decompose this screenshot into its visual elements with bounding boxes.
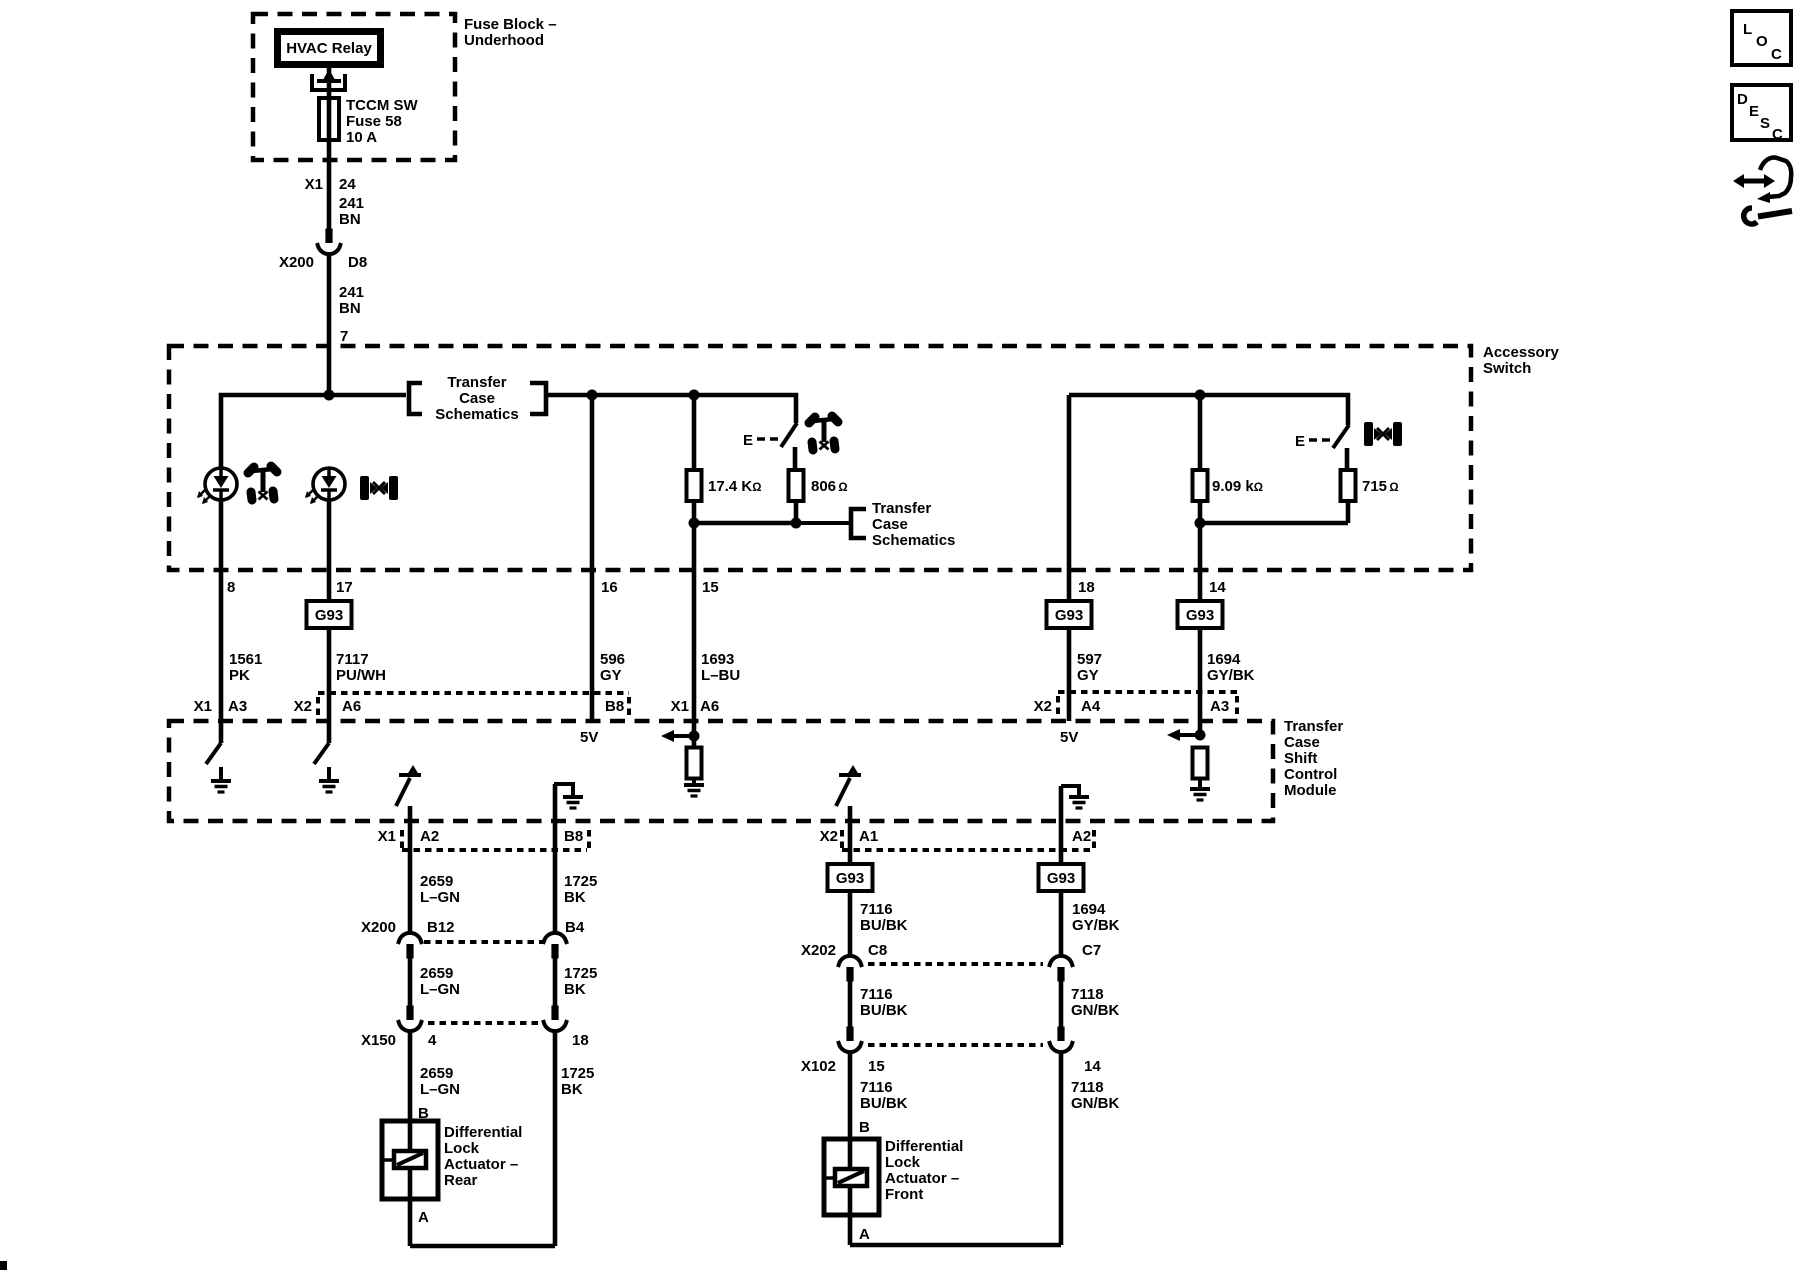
svg-text:1725: 1725: [564, 965, 597, 982]
wire: module pin B8 down to actuator return: [553, 784, 558, 931]
svg-text:241: 241: [339, 195, 364, 212]
ground (module pin A3): [211, 781, 231, 792]
wire: 18 from bus to splice G93: [1067, 395, 1072, 601]
svg-text:7118: 7118: [1071, 986, 1104, 1003]
pin label B: [859, 1119, 870, 1136]
svg-text:15: 15: [702, 579, 719, 596]
svg-text:Control: Control: [1284, 766, 1337, 783]
wire label 7116 BU/BK: [860, 1079, 908, 1112]
svg-text:597: 597: [1077, 651, 1102, 668]
svg-text:5V: 5V: [1060, 729, 1078, 746]
module pull resistor (left): [687, 748, 702, 779]
svg-text:7116: 7116: [860, 1079, 893, 1096]
svg-text:Fuse Block –: Fuse Block –: [464, 16, 557, 33]
svg-text:A: A: [418, 1209, 429, 1226]
wire: G93 to X202 C8: [848, 891, 853, 954]
fuse F58 (TCCM SW Fuse 58 10 A): [319, 98, 339, 140]
wire: B12 to X150: [408, 958, 413, 1006]
svg-text:5V: 5V: [580, 729, 598, 746]
svg-text:A6: A6: [700, 698, 719, 715]
svg-text:Transfer: Transfer: [447, 374, 506, 391]
svg-text:Schematics: Schematics: [435, 406, 518, 423]
icon: axle lock: [360, 476, 398, 500]
wire label 2659 L-GN: [420, 1065, 460, 1098]
svg-text:X200: X200: [361, 919, 396, 936]
LED1 indicator (4x4 lamp): [197, 468, 237, 504]
svg-text:BN: BN: [339, 211, 361, 228]
wire to bracket 2: [796, 521, 849, 525]
wire: 14 down through splice G93 to module: [1198, 523, 1203, 735]
svg-text:BU/BK: BU/BK: [860, 1095, 908, 1112]
svg-text:GY/BK: GY/BK: [1072, 917, 1120, 934]
svg-text:C: C: [1771, 46, 1782, 63]
svg-text:Transfer: Transfer: [1284, 718, 1343, 735]
wire label 7116 BU/BK: [860, 986, 908, 1019]
svg-text:Case: Case: [459, 390, 495, 407]
page corner mark: [0, 1261, 7, 1270]
svg-text:L–GN: L–GN: [420, 889, 460, 906]
wire resistor to ground: [692, 779, 696, 785]
wire label 7118 GN/BK: [1071, 986, 1120, 1019]
svg-text:15: 15: [868, 1058, 885, 1075]
wire: LED2 through splice G93 to module pin A6: [327, 500, 332, 743]
switch to ground inside module (pin A3): [206, 743, 221, 780]
sense arrow on pin A6 input: [661, 730, 700, 742]
svg-text:X1: X1: [194, 698, 212, 715]
wire: driver to connector X2 A1: [848, 806, 853, 864]
wire label 1694 GY/BK: [1207, 651, 1255, 684]
wire label 7118 GN/BK: [1071, 1079, 1120, 1112]
svg-text:B8: B8: [605, 698, 624, 715]
resistor 9.09 k: [1193, 470, 1208, 501]
pin label A3: [1210, 698, 1229, 715]
junction node at fuse stem and bus: [324, 390, 335, 401]
wire: switch lower stub: [793, 447, 798, 471]
splice G93 below A1: [828, 864, 873, 891]
svg-text:A3: A3: [228, 698, 247, 715]
junction node at 1200,523: [1195, 518, 1206, 529]
label: Transfer Case Shift Control Module: [1284, 718, 1343, 799]
wire: B4 to X150: [553, 958, 558, 1006]
wire: 18 from splice to module 5V: [1067, 628, 1072, 721]
connector boundary dotted (right group A4..A3): [1058, 692, 1237, 719]
svg-text:2659: 2659: [420, 965, 453, 982]
svg-text:L–BU: L–BU: [701, 667, 740, 684]
bracket right ]: [530, 383, 546, 414]
wire label 241 BN: [339, 195, 364, 228]
svg-text:Switch: Switch: [1483, 360, 1531, 377]
pin label 7: [340, 328, 348, 345]
wire label 2659 L-GN: [420, 873, 460, 906]
svg-text:18: 18: [1078, 579, 1095, 596]
label 5V (pin A4): [1060, 729, 1078, 746]
wire: fuse output 241 BN down to accessory switch bus: [327, 256, 332, 397]
pin label A: [859, 1226, 870, 1243]
svg-text:S: S: [1760, 115, 1770, 132]
pin label 15: [702, 579, 719, 596]
label: Transfer Case Schematics (center): [435, 374, 518, 423]
pin label 14: [1209, 579, 1226, 596]
label 17.4 K ohm: [708, 478, 761, 495]
svg-text:E: E: [1295, 433, 1305, 450]
pin label X1 A6: [671, 698, 720, 715]
junction node at 694,523: [689, 518, 700, 529]
corner icon: DESC box: [1732, 85, 1791, 143]
wire label 7117 PU/WH: [336, 651, 386, 684]
svg-text:B8: B8: [564, 828, 583, 845]
svg-text:A1: A1: [859, 828, 878, 845]
fuse block underhood dashed box: [253, 14, 455, 160]
svg-text:C8: C8: [868, 942, 887, 959]
harness dotted X200: [424, 940, 543, 944]
label: TCCM SW Fuse 58 10 A: [346, 97, 418, 146]
wire: 715 resistor to junction row: [1200, 501, 1348, 524]
svg-text:O: O: [1756, 33, 1768, 50]
label: Transfer Case Schematics (right): [872, 500, 955, 549]
wire: 15 from bus through resistor to junction: [692, 395, 697, 523]
sense arrow on pin A3 input: [1167, 729, 1206, 741]
wire: bus right segment from bracket to mode switch: [548, 395, 796, 423]
svg-text:Actuator –: Actuator –: [885, 1170, 959, 1187]
switch to ground inside module (pin A6): [314, 743, 329, 780]
connector boundary dotted (bottom right X2 A1..A2): [842, 830, 1094, 850]
svg-text:L: L: [1743, 21, 1752, 38]
svg-text:PK: PK: [229, 667, 250, 684]
wire: 806 resistor to junction row: [694, 501, 796, 524]
svg-text:Lock: Lock: [885, 1154, 921, 1171]
svg-text:A2: A2: [420, 828, 439, 845]
ground below resistor (left): [684, 785, 704, 796]
svg-text:B12: B12: [427, 919, 455, 936]
svg-text:X2: X2: [820, 828, 838, 845]
solenoid (front actuator coil): [826, 1169, 867, 1186]
svg-text:Shift: Shift: [1284, 750, 1317, 767]
connector X150 pin 4: [398, 1006, 422, 1032]
svg-text:16: 16: [601, 579, 618, 596]
wire: right bus: [1069, 395, 1348, 425]
svg-text:B4: B4: [565, 919, 585, 936]
wire: LED1 to module pin A3: [219, 500, 224, 743]
harness dotted X150: [428, 1021, 543, 1025]
wire: connector to actuator and return loop: [850, 1054, 1061, 1245]
label 9.09 k ohm: [1212, 478, 1263, 495]
wire: module pin A2 down to splice G93: [1059, 786, 1064, 864]
svg-text:241: 241: [339, 284, 364, 301]
svg-text:17: 17: [336, 579, 353, 596]
svg-text:10 A: 10 A: [346, 129, 377, 146]
label: Accessory Switch: [1483, 344, 1560, 377]
svg-text:1693: 1693: [701, 651, 734, 668]
svg-text:GY: GY: [1077, 667, 1099, 684]
svg-text:X102: X102: [801, 1058, 836, 1075]
svg-text:GN/BK: GN/BK: [1071, 1095, 1120, 1112]
actuator box: Differential Lock Actuator Rear: [382, 1121, 438, 1199]
svg-text:2659: 2659: [420, 873, 453, 890]
pin label A: [418, 1209, 429, 1226]
svg-text:Front: Front: [885, 1186, 923, 1203]
pin label X1 24: [305, 176, 357, 193]
svg-text:L–GN: L–GN: [420, 1081, 460, 1098]
connector X102 pin 14: [1049, 1027, 1073, 1053]
svg-text:1561: 1561: [229, 651, 262, 668]
junction node at 1200,395: [1195, 390, 1206, 401]
connector X200 pin D8 (inline connector): [317, 229, 341, 255]
label: Differential Lock Actuator - Rear: [444, 1124, 522, 1189]
svg-text:Lock: Lock: [444, 1140, 480, 1157]
connector X200 pin B12: [398, 933, 422, 959]
svg-text:Case: Case: [1284, 734, 1320, 751]
connector boundary dotted (left group A6..B8): [318, 693, 629, 719]
svg-text:14: 14: [1084, 1058, 1101, 1075]
label 5V (pin B8): [580, 729, 598, 746]
svg-text:TCCM SW: TCCM SW: [346, 97, 418, 114]
svg-text:L–GN: L–GN: [420, 981, 460, 998]
connector boundary dotted (bottom left X1 A2..B8): [402, 830, 589, 850]
svg-text:B: B: [859, 1119, 870, 1136]
junction node at 796,523: [791, 518, 802, 529]
accessory switch dashed box: [169, 346, 1471, 570]
label X202 C8 C7: [801, 942, 1101, 959]
wire: driver to connector X1 A2: [408, 806, 413, 931]
ground below resistor (right): [1190, 789, 1210, 800]
svg-text:Transfer: Transfer: [872, 500, 931, 517]
label X200 D8: [279, 254, 367, 271]
resistor 806: [789, 470, 804, 501]
svg-text:7116: 7116: [860, 901, 893, 918]
wire label 7116 BU/BK: [860, 901, 908, 934]
svg-text:A4: A4: [1081, 698, 1101, 715]
connector X202 pin C8: [838, 956, 862, 982]
svg-text:24: 24: [339, 176, 356, 193]
svg-text:X2: X2: [294, 698, 312, 715]
actuator box: Differential Lock Actuator Front: [824, 1139, 879, 1215]
pin label 18: [1078, 579, 1095, 596]
pin label A2 (bottom): [1072, 828, 1091, 845]
pin label 8: [227, 579, 235, 596]
junction node wire 15: [689, 390, 700, 401]
svg-text:Actuator –: Actuator –: [444, 1156, 518, 1173]
wire label 1561 PK: [229, 651, 262, 684]
pin label X2 A1: [820, 828, 879, 845]
wire label 1725 BK: [561, 1065, 594, 1098]
wire label 241 BN: [339, 284, 364, 317]
svg-text:BK: BK: [564, 981, 586, 998]
wire label 1694 GY/BK: [1072, 901, 1120, 934]
label 715 ohm: [1362, 478, 1399, 495]
label X102 15 14: [801, 1058, 1101, 1075]
svg-text:A: A: [859, 1226, 870, 1243]
connector X202 pin C7: [1049, 956, 1073, 982]
corner icon: arrows and wrench: [1733, 158, 1792, 224]
svg-text:A3: A3: [1210, 698, 1229, 715]
pin label X1 A2: [378, 828, 440, 845]
junction node wire 16: [587, 390, 598, 401]
wire label 1725 BK: [564, 965, 597, 998]
pin label 16: [601, 579, 618, 596]
svg-text:Fuse 58: Fuse 58: [346, 113, 402, 130]
bracket 2 [: [851, 509, 866, 538]
svg-text:E: E: [1749, 103, 1759, 120]
transfer case shift control module dashed box: [169, 721, 1273, 821]
svg-text:X202: X202: [801, 942, 836, 959]
wire: C7 to X102: [1059, 981, 1064, 1027]
svg-text:X150: X150: [361, 1032, 396, 1049]
svg-text:BK: BK: [564, 889, 586, 906]
svg-text:BN: BN: [339, 300, 361, 317]
label: Differential Lock Actuator - Front: [885, 1138, 963, 1203]
relay HVAC (box): [278, 32, 381, 65]
pin label X1 A3: [194, 698, 248, 715]
svg-text:X200: X200: [279, 254, 314, 271]
svg-text:Rear: Rear: [444, 1172, 478, 1189]
wire: battery feed from HVAC relay through fuse down to connector X1: [327, 68, 332, 229]
svg-text:Differential: Differential: [444, 1124, 522, 1141]
corner icon: LOC box: [1732, 11, 1791, 65]
svg-text:7: 7: [340, 328, 348, 345]
label 806 ohm: [811, 478, 848, 495]
svg-text:D8: D8: [348, 254, 367, 271]
wire label 1693 L-BU: [701, 651, 740, 684]
svg-text:Differential: Differential: [885, 1138, 963, 1155]
svg-text:1725: 1725: [561, 1065, 594, 1082]
wire: 15 down to module: [692, 523, 697, 749]
switch SW2 blade (E-- front lock): [1295, 425, 1349, 450]
resistor 715: [1341, 470, 1356, 501]
svg-text:596: 596: [600, 651, 625, 668]
label X150 4 18: [361, 1032, 589, 1049]
bracket left [: [409, 383, 422, 414]
label: Fuse Block - Underhood: [464, 16, 557, 49]
svg-text:1694: 1694: [1072, 901, 1106, 918]
svg-text:HVAC Relay: HVAC Relay: [286, 40, 372, 57]
wire: C8 to X102: [848, 981, 853, 1027]
wire: connector to actuator and return loop: [410, 1033, 555, 1246]
svg-text:C: C: [1772, 126, 1783, 143]
resistor 17.4 K: [687, 470, 702, 501]
svg-text:Module: Module: [1284, 782, 1337, 799]
svg-text:Case: Case: [872, 516, 908, 533]
relay socket terminal symbol: [310, 69, 347, 90]
module driver switch (pin A1): [836, 765, 861, 806]
svg-text:C7: C7: [1082, 942, 1101, 959]
icon: 4x4 driveline at switch: [809, 416, 838, 450]
svg-text:7116: 7116: [860, 986, 893, 1003]
svg-text:18: 18: [572, 1032, 589, 1049]
wire: bus left segment to bracket: [221, 395, 406, 468]
splice G93 on wire 17: [307, 601, 352, 628]
module pull resistor (right): [1193, 748, 1208, 779]
svg-text:D: D: [1737, 91, 1748, 108]
wire: G93 to X202 C7: [1059, 891, 1064, 954]
svg-text:14: 14: [1209, 579, 1226, 596]
solenoid (rear actuator coil): [384, 1151, 426, 1168]
svg-text:Accessory: Accessory: [1483, 344, 1560, 361]
svg-text:BU/BK: BU/BK: [860, 1002, 908, 1019]
svg-text:PU/WH: PU/WH: [336, 667, 386, 684]
icon: axle lock at switch: [1364, 422, 1402, 446]
svg-text:E: E: [743, 432, 753, 449]
svg-text:GY/BK: GY/BK: [1207, 667, 1255, 684]
wire label 2659 L-GN: [420, 965, 460, 998]
svg-text:4: 4: [428, 1032, 437, 1049]
svg-text:A6: A6: [342, 698, 361, 715]
splice G93 on wire 14: [1178, 601, 1223, 628]
connector X102 pin 15: [838, 1027, 862, 1053]
wire label 596 GY: [600, 651, 625, 684]
connector X200 pin B4: [543, 933, 567, 959]
svg-text:BU/BK: BU/BK: [860, 917, 908, 934]
wire label 597 GY: [1077, 651, 1102, 684]
module driver switch (pin A2): [396, 765, 421, 806]
pin label X2 A4: [1034, 698, 1101, 715]
pin label B8: [605, 698, 624, 715]
switch SW1 blade (E-- rear lock): [743, 423, 797, 449]
svg-text:GN/BK: GN/BK: [1071, 1002, 1120, 1019]
harness dotted X102: [868, 1043, 1043, 1047]
svg-text:X1: X1: [378, 828, 396, 845]
svg-text:A2: A2: [1072, 828, 1091, 845]
svg-text:X2: X2: [1034, 698, 1052, 715]
wire resistor to ground: [1198, 779, 1202, 789]
pin label B: [418, 1105, 429, 1122]
wire label 1725 BK: [564, 873, 597, 906]
svg-text:1725: 1725: [564, 873, 597, 890]
pin label B8 (bottom): [564, 828, 583, 845]
harness dotted X202: [868, 962, 1043, 966]
wire: switch lower stub: [1345, 448, 1350, 471]
svg-text:BK: BK: [561, 1081, 583, 1098]
svg-text:Schematics: Schematics: [872, 532, 955, 549]
svg-text:2659: 2659: [420, 1065, 453, 1082]
splice G93 on wire 18: [1047, 601, 1092, 628]
wire: 14 column through resistor: [1198, 395, 1203, 523]
svg-text:Underhood: Underhood: [464, 32, 544, 49]
svg-text:GY: GY: [600, 667, 622, 684]
label X200 B12 B4: [361, 919, 585, 936]
svg-text:X1: X1: [305, 176, 323, 193]
wire: 16 from bus down to module 5V: [590, 395, 595, 721]
pin label 17: [336, 579, 353, 596]
module internal ground for pin A2: [1061, 786, 1089, 808]
svg-text:7118: 7118: [1071, 1079, 1104, 1096]
LED2 indicator (axle lock lamp): [305, 468, 345, 504]
splice G93 below A2: [1039, 864, 1084, 891]
pin label X2 A6: [294, 698, 362, 715]
svg-text:1694: 1694: [1207, 651, 1241, 668]
icon: 4x4 driveline: [248, 466, 277, 500]
module internal ground for pin B8: [554, 784, 583, 808]
svg-text:8: 8: [227, 579, 235, 596]
ground (module pin A6): [319, 781, 339, 792]
svg-text:7117: 7117: [336, 651, 369, 668]
svg-text:X1: X1: [671, 698, 689, 715]
connector X150 pin 18: [543, 1006, 567, 1032]
